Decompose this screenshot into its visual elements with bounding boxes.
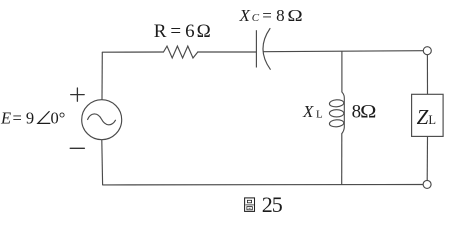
label E = 9 angle 0deg <box>0 109 65 128</box>
resistor R <box>164 46 198 58</box>
wire right vertical (ZL to bottom terminal) <box>426 136 428 180</box>
svg-text:Z: Z <box>417 105 429 129</box>
wire inductor branch top stub <box>341 51 343 92</box>
angle symbol of phasor <box>38 112 50 124</box>
wire inductor branch bottom stub <box>341 134 343 185</box>
wire top segment (corner to resistor) <box>102 51 163 53</box>
polarity minus <box>70 147 84 149</box>
load ZL box <box>412 94 444 136</box>
svg-text:Ω: Ω <box>197 21 211 42</box>
wire left vertical (top, source to top-left corner) <box>101 52 103 99</box>
capacitor XC <box>256 29 270 70</box>
svg-text:L: L <box>316 108 323 120</box>
wire left vertical (bottom of source to bottom-left corner) <box>101 140 104 185</box>
svg-text:Ω: Ω <box>360 102 376 123</box>
svg-text:C: C <box>252 12 260 24</box>
node top-right terminal <box>423 47 431 55</box>
wire bottom <box>103 184 423 186</box>
label XC = 8 ohm <box>239 6 303 25</box>
svg-text:R = 6: R = 6 <box>154 21 194 42</box>
caption figure glyph (CJK tu) <box>245 198 255 212</box>
svg-text:Ω: Ω <box>287 6 302 25</box>
wire top segment (capacitor to top-right terminal) <box>263 51 423 52</box>
wire right vertical (top terminal to ZL) <box>426 55 428 95</box>
svg-text:= 8: = 8 <box>262 6 284 25</box>
svg-text:X: X <box>239 6 251 25</box>
svg-text:L: L <box>428 113 436 127</box>
polarity plus <box>71 88 85 101</box>
svg-text:X: X <box>302 102 314 121</box>
svg-text:E: E <box>0 109 11 128</box>
label ZL (load) <box>417 105 436 129</box>
svg-text:25: 25 <box>262 192 283 217</box>
node bottom-right terminal <box>423 180 431 188</box>
svg-text:= 9: = 9 <box>13 109 35 128</box>
svg-text:0°: 0° <box>51 109 66 128</box>
wire top segment (resistor to capacitor) <box>198 51 257 53</box>
label XL <box>302 102 323 121</box>
voltage source E (circle with sine) <box>82 100 122 140</box>
inductor XL coil <box>329 92 344 134</box>
